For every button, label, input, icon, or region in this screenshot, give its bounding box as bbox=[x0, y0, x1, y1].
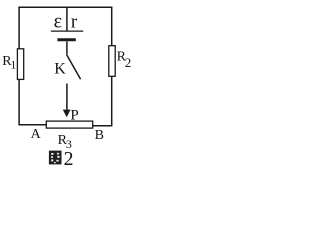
battery short plate bbox=[57, 38, 75, 41]
rheostat R3 box bbox=[46, 121, 92, 128]
wire top bbox=[18, 6, 112, 8]
wire below battery bbox=[66, 42, 68, 55]
wire bottom right bbox=[93, 125, 113, 127]
switch K blade bbox=[67, 55, 81, 80]
battery long plate bbox=[51, 30, 83, 32]
wire below switch bbox=[66, 84, 68, 111]
wire bottom left bbox=[18, 124, 46, 126]
svg-text:1: 1 bbox=[10, 58, 16, 72]
resistor R2 box bbox=[109, 46, 115, 77]
svg-text:B: B bbox=[95, 128, 104, 143]
wire battery drop bbox=[66, 7, 68, 31]
svg-text:A: A bbox=[31, 127, 42, 142]
wire left bbox=[18, 7, 20, 125]
caption glyph tu (figure) bbox=[49, 151, 62, 165]
svg-text:ε: ε bbox=[54, 11, 62, 33]
svg-text:K: K bbox=[54, 61, 66, 78]
resistor R1 box bbox=[17, 49, 23, 80]
slider arrowhead P bbox=[63, 110, 71, 118]
svg-text:r: r bbox=[71, 11, 78, 32]
wire right bbox=[111, 7, 113, 126]
svg-text:2: 2 bbox=[125, 55, 131, 70]
svg-text:2: 2 bbox=[64, 148, 74, 167]
